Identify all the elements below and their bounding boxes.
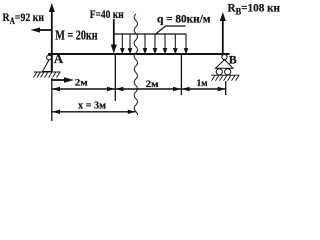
svg-text:B: B: [229, 53, 237, 67]
dimension x = 3м: [52, 101, 136, 114]
beam: [48, 53, 230, 55]
moment arrow M (left, top of couple): [31, 27, 52, 32]
support A pin circle: [47, 55, 52, 60]
support A ground and hatching: [34, 72, 61, 78]
reaction arrow RA: [49, 3, 55, 72]
svg-text:M = 20кн: M = 20кн: [55, 28, 98, 43]
svg-text:RB=108 кн: RB=108 кн: [228, 1, 281, 17]
distributed load q top line: [114, 33, 187, 35]
extension line at q end: [180, 55, 182, 95]
svg-text:RA=92 кн: RA=92 кн: [3, 10, 45, 26]
svg-text:1м: 1м: [197, 79, 209, 89]
support B ground and hatching: [211, 75, 240, 81]
extension line below A: [51, 78, 53, 121]
force arrow F: [111, 19, 117, 54]
svg-text:2м: 2м: [75, 79, 89, 89]
dimension 2м (A to F): [52, 79, 115, 92]
reaction arrow RB: [220, 12, 226, 53]
svg-text:2м: 2м: [146, 80, 160, 90]
q arrows: [121, 34, 188, 53]
svg-text:F=40 кн: F=40 кн: [90, 9, 124, 21]
svg-text:q = 80кн/м: q = 80кн/м: [157, 14, 211, 26]
extension line below B: [225, 81, 227, 95]
dimension 2м (F to section end): [115, 80, 181, 91]
support B triangle: [216, 60, 234, 69]
q leader line: [155, 26, 186, 35]
moment arrow (right, bottom of couple): [52, 77, 74, 83]
dimension 1м (to B): [182, 79, 226, 91]
support B rollers: [216, 69, 222, 75]
extension line below F: [114, 55, 116, 101]
support A triangle: [43, 60, 53, 72]
support B pin circle: [222, 54, 227, 59]
svg-text:x = 3м: x = 3м: [78, 101, 106, 112]
support A post (RA line through support): [51, 54, 53, 72]
svg-text:A: A: [54, 51, 64, 66]
section wavy line: [134, 14, 137, 115]
